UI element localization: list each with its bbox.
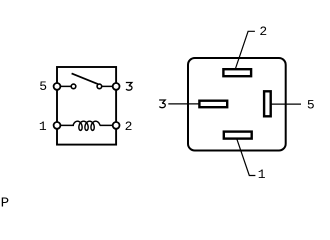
terminal slot 1 (bottom) bbox=[224, 132, 252, 139]
svg-text:1: 1 bbox=[258, 167, 266, 182]
svg-text:5: 5 bbox=[39, 79, 47, 94]
svg-text:5: 5 bbox=[307, 97, 315, 112]
pin 3 terminal circle bbox=[113, 83, 120, 90]
svg-text:2: 2 bbox=[259, 24, 267, 39]
switch blade bbox=[72, 73, 99, 84]
terminal slot 5 (right) bbox=[264, 91, 271, 116]
switch contact right bbox=[97, 84, 102, 89]
leader line to 2 bbox=[236, 31, 255, 68]
svg-text:2: 2 bbox=[125, 119, 133, 134]
wire coil to pin2 bbox=[100, 124, 116, 126]
leader line to 5 bbox=[271, 103, 301, 105]
svg-text:P: P bbox=[1, 196, 10, 210]
coil L1 winding bbox=[73, 121, 100, 130]
wire contact to pin3 bbox=[99, 85, 116, 87]
label pin 3 left bbox=[126, 83, 132, 91]
pin 2 terminal circle bbox=[113, 122, 120, 129]
switch contact left bbox=[71, 84, 76, 89]
relay body outline bbox=[188, 58, 286, 151]
terminal slot 3 (left) bbox=[199, 101, 227, 108]
wire pin5 to contact bbox=[57, 85, 74, 87]
leader line to 1 bbox=[237, 139, 256, 175]
svg-text:1: 1 bbox=[39, 119, 47, 134]
terminal slot 2 (top) bbox=[223, 69, 251, 76]
pin 1 terminal circle bbox=[54, 122, 61, 129]
relay box bbox=[57, 67, 116, 145]
pin 5 terminal circle bbox=[54, 83, 61, 90]
leader line to 3 bbox=[168, 103, 198, 105]
wire pin1 to coil bbox=[57, 124, 74, 126]
label terminal 3 bbox=[159, 100, 165, 108]
